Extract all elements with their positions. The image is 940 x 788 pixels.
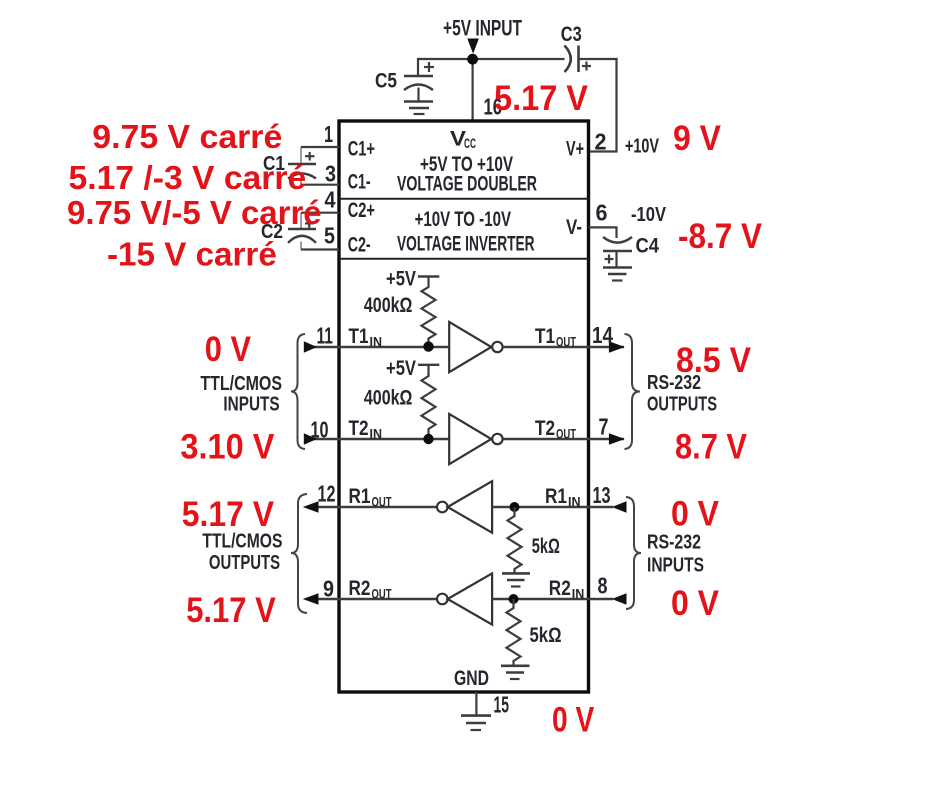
svg-text:9 V: 9 V	[673, 119, 722, 158]
svg-text:9.75 V/-5 V carré: 9.75 V/-5 V carré	[67, 194, 322, 231]
junction dot T2	[423, 434, 433, 444]
svg-text:C5: C5	[375, 70, 397, 93]
svg-text:15: 15	[494, 692, 510, 718]
svg-text:+5V: +5V	[386, 268, 416, 291]
capacitor C5	[404, 62, 434, 102]
svg-text:9: 9	[323, 576, 334, 602]
arrow R2 output	[303, 593, 319, 604]
R1 inverter bubble	[437, 502, 448, 513]
junction dot R1	[510, 502, 520, 512]
svg-text:V-: V-	[566, 216, 582, 239]
svg-text:3.10 V: 3.10 V	[180, 428, 275, 467]
resistor R-T2 400k zigzag	[422, 365, 436, 439]
wire C5 drop	[417, 58, 419, 76]
svg-text:-10V: -10V	[631, 204, 667, 226]
wire T1 output line	[503, 346, 624, 348]
svg-text:10: 10	[311, 417, 329, 443]
svg-text:+10V TO -10V: +10V TO -10V	[415, 208, 511, 231]
capacitor C1	[288, 147, 316, 185]
svg-text:IN: IN	[568, 495, 581, 510]
svg-text:+5V INPUT: +5V INPUT	[443, 16, 522, 41]
svg-text:8.5 V: 8.5 V	[676, 341, 752, 380]
resistor R-T1 400k zigzag	[422, 277, 436, 347]
brace RS-232 outputs	[625, 334, 641, 449]
wire R1 output line	[318, 506, 437, 508]
svg-text:RS-232: RS-232	[647, 532, 701, 554]
svg-text:VOLTAGE INVERTER: VOLTAGE INVERTER	[397, 233, 535, 256]
capacitor C3	[565, 46, 592, 73]
svg-text:12: 12	[318, 481, 336, 507]
svg-text:+5V: +5V	[386, 357, 416, 380]
op-amp receiver R2 triangle	[448, 573, 493, 624]
svg-text:R1: R1	[545, 485, 567, 508]
svg-text:TTL/CMOS: TTL/CMOS	[200, 373, 282, 395]
svg-text:0 V: 0 V	[671, 495, 720, 534]
svg-text:4: 4	[325, 187, 336, 213]
svg-text:GND: GND	[454, 667, 489, 690]
svg-text:R1: R1	[349, 485, 371, 508]
ground for R1 5k	[502, 573, 530, 586]
svg-text:-15 V carré: -15 V carré	[107, 236, 277, 273]
svg-text:INPUTS: INPUTS	[647, 555, 704, 577]
svg-text:2: 2	[595, 129, 607, 155]
ground for C5	[404, 102, 433, 115]
divider doubler/inverter	[339, 198, 589, 200]
svg-text:9.75 V carré: 9.75 V carré	[92, 118, 282, 155]
wire V+ pin 2 stub	[589, 150, 618, 152]
capacitor C4	[603, 237, 632, 268]
wire R2 output line	[318, 598, 437, 600]
svg-text:T1: T1	[349, 325, 369, 348]
resistor R2 5k zigzag	[507, 599, 521, 666]
svg-text:C1-: C1-	[348, 171, 371, 194]
wire R1 input line	[492, 506, 613, 508]
svg-text:5.17 V: 5.17 V	[494, 79, 589, 118]
svg-text:13: 13	[593, 482, 611, 508]
svg-text:OUT: OUT	[556, 335, 577, 350]
resistor R-T1 400k top bar	[418, 275, 439, 277]
divider inverter/drivers	[339, 258, 589, 260]
arrow R1 output	[303, 501, 319, 512]
arrow T2 input	[304, 433, 317, 444]
arrow T1 output	[609, 341, 625, 352]
svg-text:T2: T2	[535, 417, 555, 440]
ground for R2 5k	[501, 666, 530, 679]
svg-text:5.17 /-3 V carré: 5.17 /-3 V carré	[69, 159, 307, 196]
brace TTL/CMOS inputs	[291, 334, 305, 449]
arrow T2 output	[609, 433, 625, 444]
svg-text:VOLTAGE DOUBLER: VOLTAGE DOUBLER	[397, 173, 537, 196]
wire VCC pin 16 vertical	[472, 59, 474, 121]
svg-text:0 V: 0 V	[552, 701, 595, 740]
svg-text:C4: C4	[636, 235, 660, 258]
svg-text:R2: R2	[349, 577, 371, 600]
junction dot R2	[509, 594, 519, 604]
svg-text:0 V: 0 V	[205, 330, 252, 369]
pin 3 stub	[301, 184, 339, 186]
svg-text:14: 14	[592, 322, 613, 348]
svg-text:5.17 V: 5.17 V	[182, 495, 275, 534]
wire V- pin 6 stub	[589, 226, 618, 228]
svg-text:T1: T1	[535, 325, 555, 348]
wire V+ vertical drop	[615, 58, 617, 152]
junction dot T1	[423, 341, 433, 351]
pin 5 stub	[301, 248, 339, 250]
svg-text:3: 3	[325, 161, 336, 187]
svg-text:INPUTS: INPUTS	[223, 394, 279, 416]
wire GND pin 15 stub	[475, 692, 477, 716]
svg-text:+10V: +10V	[625, 136, 659, 158]
svg-text:8.7 V: 8.7 V	[675, 428, 748, 467]
resistor R1 5k zigzag	[508, 507, 522, 573]
T2 inverter bubble	[492, 434, 502, 444]
arrow R2 input	[612, 593, 627, 604]
brace TTL/CMOS outputs	[291, 494, 307, 613]
svg-text:V+: V+	[566, 137, 584, 160]
ground for pin 15	[461, 716, 491, 730]
wire T1 input line	[304, 346, 449, 348]
IC box U1	[339, 121, 589, 692]
resistor R-T2 400k top bar	[418, 364, 439, 366]
svg-text:OUT: OUT	[372, 495, 393, 510]
wire R2 input line	[492, 598, 613, 600]
wire T2 output line	[503, 438, 624, 440]
op-amp receiver R1 triangle	[448, 481, 493, 533]
wire top rail left segment (node to C3 left plate)	[418, 58, 565, 60]
node junction dot at +5V rail	[467, 54, 478, 65]
svg-text:6: 6	[596, 200, 608, 226]
pin 1 stub	[301, 146, 339, 148]
wire top rail right segment (C3 right plate to V+ corner)	[579, 58, 618, 60]
svg-text:IN: IN	[370, 427, 383, 442]
svg-text:C2-: C2-	[348, 234, 371, 257]
svg-text:5kΩ: 5kΩ	[530, 624, 562, 647]
op-amp driver T1 triangle	[449, 322, 491, 372]
svg-text:11: 11	[317, 323, 334, 349]
svg-text:-8.7 V: -8.7 V	[678, 217, 763, 256]
wire V- vertical to C4	[615, 227, 617, 238]
svg-text:CC: CC	[464, 135, 476, 151]
brace RS-232 inputs	[626, 497, 641, 609]
svg-text:1: 1	[324, 121, 333, 147]
T1 inverter bubble	[492, 342, 502, 352]
pin 4 stub	[301, 212, 339, 214]
svg-text:5kΩ: 5kΩ	[532, 535, 560, 558]
svg-text:C2+: C2+	[348, 199, 375, 222]
svg-text:T2: T2	[349, 417, 369, 440]
svg-text:5.17 V: 5.17 V	[186, 591, 276, 630]
svg-text:IN: IN	[370, 335, 383, 350]
wire T2 input line	[304, 438, 449, 440]
R2 inverter bubble	[437, 594, 448, 605]
op-amp driver T2 triangle	[449, 414, 491, 464]
svg-text:OUTPUTS: OUTPUTS	[209, 552, 280, 574]
arrow R1 input	[612, 501, 627, 512]
svg-text:R2: R2	[549, 577, 571, 600]
ground for C4	[603, 268, 632, 281]
svg-text:7: 7	[599, 414, 609, 440]
svg-text:OUTPUTS: OUTPUTS	[647, 394, 717, 416]
svg-text:OUT: OUT	[556, 427, 577, 442]
svg-text:C1+: C1+	[348, 137, 375, 160]
WIRES-TOP	[418, 58, 618, 152]
arrow T1 input	[304, 341, 317, 352]
capacitor C2	[288, 213, 316, 250]
svg-text:OUT: OUT	[372, 587, 393, 602]
svg-text:400kΩ: 400kΩ	[364, 387, 413, 410]
svg-text:5: 5	[324, 223, 335, 249]
svg-text:C3: C3	[561, 23, 582, 46]
svg-text:400kΩ: 400kΩ	[364, 294, 413, 317]
svg-text:0 V: 0 V	[671, 584, 720, 623]
+5V input arrow	[467, 39, 479, 54]
svg-text:IN: IN	[572, 586, 585, 601]
svg-text:8: 8	[598, 573, 608, 599]
